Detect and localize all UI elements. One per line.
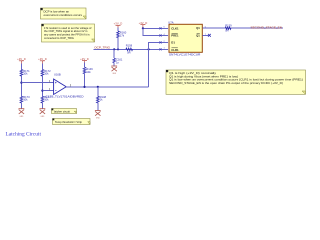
power +3V_D col1 — [17, 57, 26, 64]
wire OCP_TRIG — [94, 48, 168, 50]
wire col2 bottom — [41, 102, 43, 109]
svg-text:D1: D1 — [171, 41, 175, 45]
power +3V_D 17k — [114, 22, 123, 28]
resistor R172 — [41, 69, 51, 76]
note N3 — [52, 109, 77, 114]
IC U7A — [168, 21, 202, 57]
node clk junction — [142, 27, 144, 29]
wire cap branch — [113, 49, 115, 58]
svg-text:GND: GND — [112, 73, 117, 75]
svg-text:C17B_TLV1701AIDBVRED: C17B_TLV1701AIDBVRED — [46, 95, 84, 99]
wire Q1bar stub — [202, 34, 208, 36]
svg-text:U16B: U16B — [54, 73, 61, 77]
wire opamp + input — [21, 82, 53, 84]
svg-text:CLK1: CLK1 — [171, 26, 179, 30]
ground R148 — [95, 111, 101, 120]
svg-text:10k: 10k — [23, 98, 28, 102]
svg-text:connected to OCP_TRIG: connected to OCP_TRIG — [44, 36, 74, 40]
svg-text:17k resistor is used to set th: 17k resistor is used to set the voltage … — [44, 26, 92, 30]
svg-text:+3V_D: +3V_D — [114, 22, 123, 26]
wire pullup bottom — [84, 74, 86, 87]
svg-text:Temp threshold = Vtrip: Temp threshold = Vtrip — [55, 120, 82, 124]
wire col2 top — [41, 64, 43, 70]
power +3V_D col2 — [38, 57, 47, 64]
svg-text:0R: 0R — [127, 50, 130, 54]
svg-text:Latching Circuit: Latching Circuit — [6, 132, 42, 138]
node cap junction — [113, 48, 115, 50]
node feedback junction — [148, 48, 150, 50]
svg-text:GND: GND — [20, 116, 25, 118]
svg-text:+3V_D: +3V_D — [17, 57, 26, 61]
ground col2 — [40, 109, 46, 118]
node pullup junction — [83, 86, 85, 88]
svg-text:PRE1: PRE1 — [171, 33, 179, 37]
wire pullup top — [84, 63, 86, 68]
svg-text:U7A: U7A — [168, 21, 173, 25]
svg-text:10k: 10k — [44, 72, 49, 76]
svg-text:R158: R158 — [126, 43, 133, 47]
wire opamp output — [66, 86, 148, 88]
svg-text:Q1 is low when an overcurrent: Q1 is low when an overcurrent condition … — [169, 78, 303, 82]
svg-text:GND: GND — [41, 116, 46, 118]
svg-text:any cases and protect the FPGA: any cases and protect the FPGA if it is — [44, 33, 90, 37]
resistor R174 — [41, 95, 51, 103]
svg-text:latcher circuit: latcher circuit — [54, 109, 70, 113]
capacitor C161 — [113, 58, 123, 65]
wire col2 mid — [41, 76, 43, 97]
svg-text:Q1 is high (+3V_D) nominally: Q1 is high (+3V_D) nominally — [169, 71, 217, 75]
resistor R146 — [83, 67, 93, 74]
svg-text:Q1 is high during Vbus (reset: Q1 is high during Vbus (reset when PRE1 … — [169, 74, 238, 78]
wire col1 mid — [20, 76, 22, 97]
pin numbers left — [164, 27, 207, 50]
note N4 — [53, 119, 91, 125]
wire col1 bottom — [20, 102, 22, 109]
wire col1 top — [20, 64, 22, 70]
resistor R160 17k — [117, 28, 127, 38]
svg-text:1n: 1n — [116, 61, 119, 65]
no-connect X — [208, 34, 211, 37]
node col1 junction — [20, 82, 22, 84]
svg-text:R159: R159 — [225, 23, 232, 27]
svg-text:0R: 0R — [225, 29, 228, 33]
svg-text:Q1: Q1 — [196, 34, 200, 38]
wire R148 top — [97, 87, 99, 96]
svg-text:SECOND_STAGE_EN is the open dr: SECOND_STAGE_EN is the open drain PG out… — [169, 81, 283, 85]
power +3V_D clk — [139, 21, 148, 28]
svg-text:Q1: Q1 — [196, 26, 200, 30]
svg-text:10k: 10k — [23, 72, 28, 76]
resistor R173 — [20, 95, 30, 103]
wire R148 bottom — [97, 102, 99, 110]
wire feedback vertical — [149, 42, 168, 87]
wire opamp - input — [42, 90, 53, 92]
resistor R171 — [20, 69, 30, 76]
svg-text:the OCP_TRIG signal to about 1: the OCP_TRIG signal to about 1V in — [44, 29, 88, 33]
resistor R148 — [97, 95, 107, 103]
svg-text:SECOND_STAGE_EN: SECOND_STAGE_EN — [251, 25, 283, 29]
node R148 junction — [97, 86, 99, 88]
note N2 — [42, 24, 95, 42]
note N5 — [166, 70, 306, 94]
op-amp U16B — [46, 73, 84, 99]
node 17k junction — [117, 48, 119, 50]
svg-text:SN74LVC1G74DCUR: SN74LVC1G74DCUR — [169, 53, 201, 57]
pin number ticks opamp — [49, 80, 70, 91]
ground cap — [111, 66, 117, 75]
wire 17k bottom — [117, 37, 119, 49]
wire cap bottom — [113, 63, 115, 66]
wire PRE1 — [143, 28, 168, 35]
pin cross marks — [159, 27, 161, 50]
svg-text:+3V_D: +3V_D — [38, 57, 47, 61]
resistor R159 0R — [225, 23, 232, 32]
node col2 junction — [41, 90, 43, 92]
svg-text:17k: 17k — [120, 34, 125, 38]
note N1 — [41, 8, 87, 19]
svg-text:overcurrent conditions occurs: overcurrent conditions occurs — [44, 13, 83, 17]
svg-text:CLR1: CLR1 — [171, 48, 179, 52]
svg-text:DCP is low when an: DCP is low when an — [44, 10, 70, 14]
resistor R158 0R — [126, 43, 133, 54]
svg-text:10k: 10k — [86, 70, 91, 74]
ground col1 — [19, 109, 25, 118]
wire CLK1 — [143, 27, 168, 29]
wire Q1 output — [202, 27, 283, 29]
power +3V_D pullup — [80, 57, 89, 63]
svg-text:GND: GND — [96, 118, 101, 120]
